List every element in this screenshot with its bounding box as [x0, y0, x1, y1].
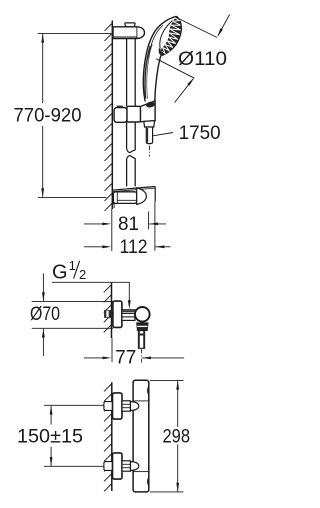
- svg-text:112: 112: [120, 237, 148, 258]
- outlet fitting: wall nut (dark): [104, 310, 113, 318]
- svg-text:G: G: [52, 261, 68, 283]
- dimension 77: [84, 338, 184, 369]
- dimension 298: [150, 380, 190, 492]
- dimension 770-920: [14, 33, 112, 197]
- label G 1/2 with leader: [52, 258, 131, 309]
- bottom bracket (soap dish): [111, 187, 155, 209]
- inlet union nut with cap: [130, 402, 138, 411]
- glider holder assembly: [114, 101, 155, 144]
- swivel nut below ball: [137, 323, 149, 331]
- svg-text:770-920: 770-920: [14, 105, 82, 126]
- hose nipple: [146, 127, 152, 144]
- svg-text:81: 81: [118, 214, 139, 235]
- top bracket: [113, 23, 145, 39]
- holder cone: [140, 101, 155, 122]
- clamp knob: [117, 106, 122, 107]
- ball joint: [135, 307, 150, 322]
- shower rail tube: [127, 39, 136, 187]
- clamp body: [113, 192, 136, 204]
- svg-text:77: 77: [115, 348, 136, 369]
- nipple centerline: [141, 349, 143, 363]
- leader 1750: [153, 123, 221, 144]
- rounded end: [137, 188, 147, 205]
- head shell inner line: [159, 21, 172, 51]
- dimension Ø110: [156, 15, 229, 103]
- dimension 112: [84, 202, 171, 259]
- hose centerline (dash-dot): [148, 146, 150, 157]
- svg-text:150±15: 150±15: [17, 427, 83, 448]
- dimension 150±15: [17, 405, 104, 466]
- svg-text:298: 298: [163, 426, 191, 447]
- spray face band (dark, toothed): [159, 17, 181, 56]
- svg-text:2: 2: [79, 267, 86, 282]
- glider body: [127, 106, 140, 122]
- rail break symbol: [127, 149, 136, 153]
- dish bottom edge: [111, 202, 136, 204]
- svg-text:1: 1: [69, 258, 76, 273]
- inlet wall nut: [104, 402, 113, 411]
- svg-text:Ø70: Ø70: [30, 304, 60, 325]
- wall (middle section): [104, 282, 112, 338]
- outlet escutcheon Ø70: [113, 301, 122, 327]
- dimension 81: [84, 209, 166, 252]
- inlet escutcheon: [113, 453, 123, 479]
- svg-text:1750: 1750: [179, 123, 221, 144]
- dark handle cap in cone mouth: [145, 101, 155, 109]
- wall (bottom section): [104, 382, 112, 491]
- outlet nipple: [138, 331, 144, 349]
- wall foot: [111, 204, 113, 208]
- dimension Ø70: [30, 274, 113, 357]
- inlet union nut with cap: [130, 462, 138, 471]
- hand shower head and handle: [143, 16, 181, 101]
- back edge double line: [149, 25, 163, 59]
- union nut: [122, 310, 135, 321]
- hose nut: [144, 121, 155, 127]
- svg-text:Ø110: Ø110: [178, 49, 227, 70]
- thermostat body: [133, 380, 149, 492]
- dark notch at face bottom: [159, 48, 164, 54]
- handle shading line: [145, 46, 150, 99]
- inlet wall nut: [104, 462, 113, 471]
- inlet escutcheon: [113, 393, 123, 419]
- wall (top section): [105, 20, 113, 211]
